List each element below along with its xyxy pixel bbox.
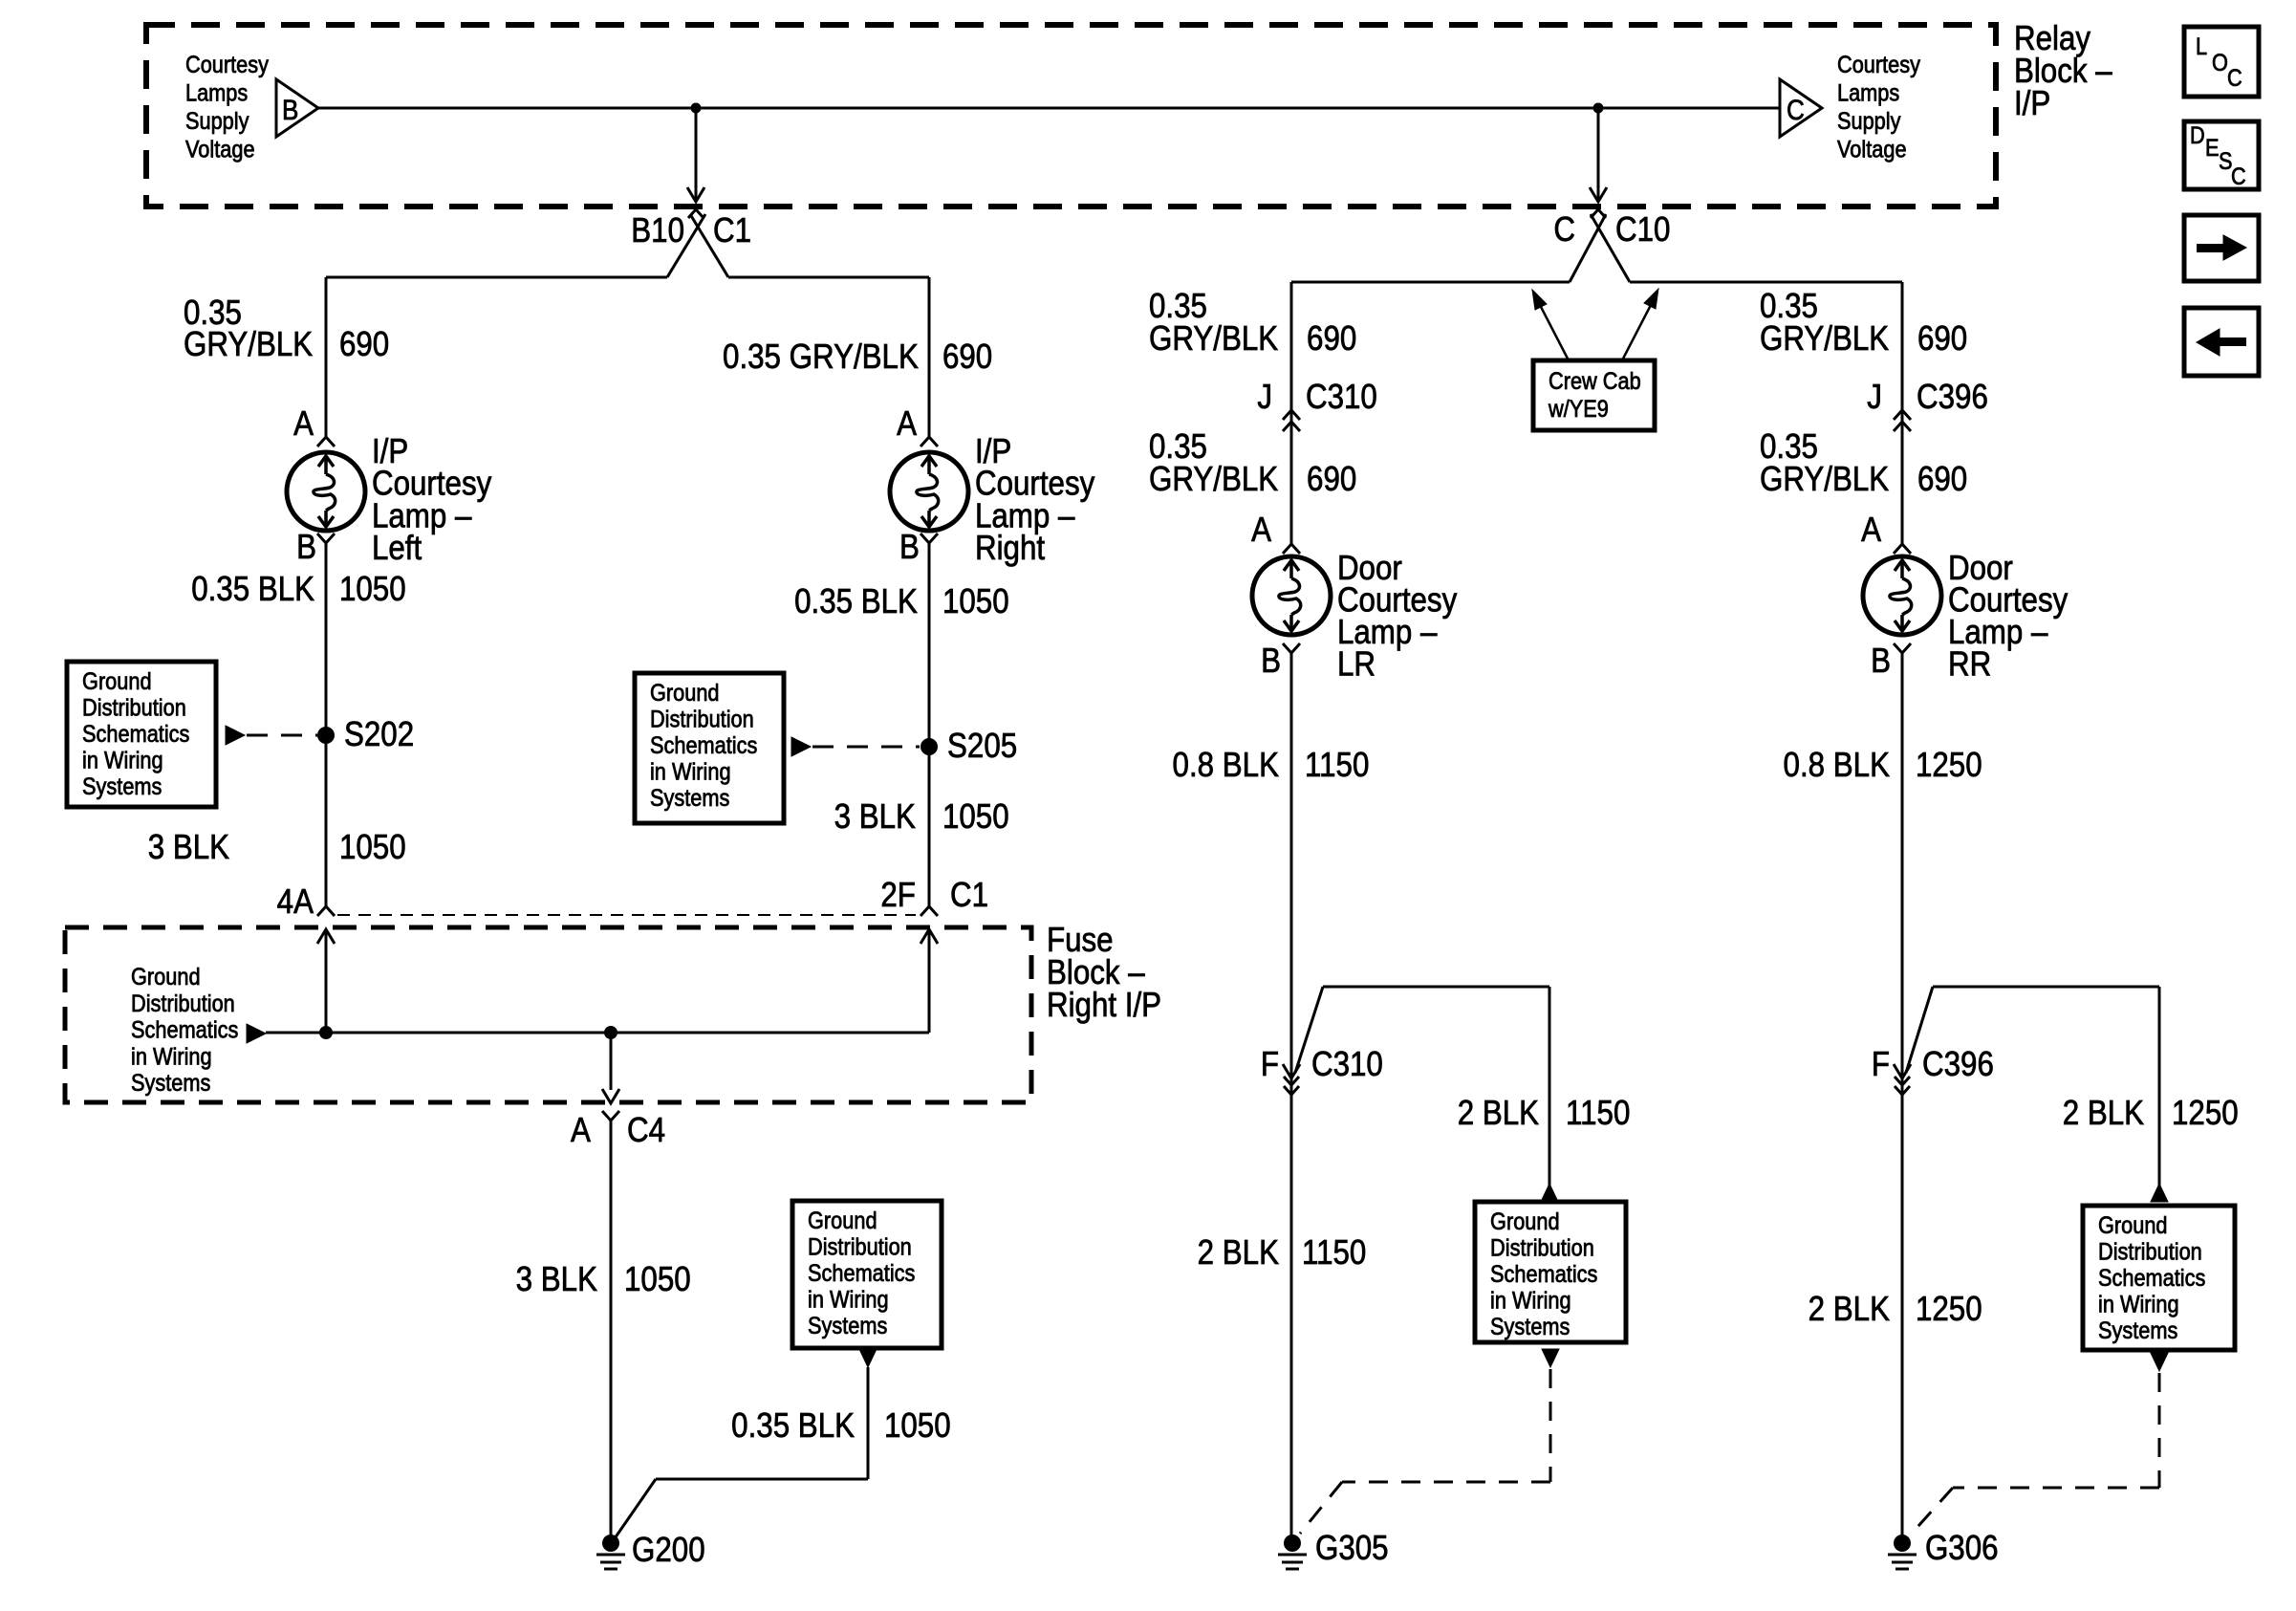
svg-text:690: 690 xyxy=(1307,460,1356,499)
svg-text:Systems: Systems xyxy=(2098,1317,2177,1344)
node B: Courtesy Lamps Supply Voltage (left) xyxy=(276,79,318,137)
svg-text:G305: G305 xyxy=(1315,1529,1389,1568)
svg-text:C: C xyxy=(2227,65,2242,92)
connector J / C310 xyxy=(1257,378,1272,417)
svg-text:B: B xyxy=(899,528,920,567)
junction on feed wire (right drop) xyxy=(1593,103,1604,114)
crew cab arrow right xyxy=(1622,305,1651,360)
svg-text:Courtesy: Courtesy xyxy=(185,52,269,78)
splice S202 xyxy=(317,727,335,744)
lamp E4: Door Courtesy Lamp - RR xyxy=(1863,556,1941,635)
fuse block title xyxy=(1047,921,1114,960)
svg-text:in Wiring: in Wiring xyxy=(2098,1291,2179,1317)
arrowhead left drop xyxy=(687,187,704,202)
ground distribution reference box (G200) xyxy=(792,1201,942,1348)
svg-text:C396: C396 xyxy=(1922,1045,1994,1084)
svg-text:I/P: I/P xyxy=(2014,84,2050,123)
svg-text:1150: 1150 xyxy=(1305,746,1369,785)
pin B of door courtesy lamp LR xyxy=(1283,643,1300,653)
reference arrow to S202 xyxy=(226,726,245,745)
ground distribution reference box (S205) xyxy=(635,673,784,823)
svg-text:3 BLK: 3 BLK xyxy=(516,1260,598,1299)
label C xyxy=(1553,210,1575,250)
circuit number 1050 xyxy=(339,570,406,609)
svg-text:Distribution: Distribution xyxy=(131,990,235,1016)
pin label B in triangle xyxy=(282,94,298,125)
wire: branch to door courtesy lamp RR xyxy=(1630,281,1902,284)
pin B of I/P courtesy lamp right xyxy=(921,533,938,543)
svg-text:2 BLK: 2 BLK xyxy=(2063,1094,2145,1133)
label C10 xyxy=(1615,210,1670,250)
connector B10/C1 xyxy=(688,209,704,218)
svg-text:J: J xyxy=(1257,378,1272,417)
svg-text:S202: S202 xyxy=(344,715,414,754)
svg-text:Ground: Ground xyxy=(808,1208,877,1234)
svg-text:690: 690 xyxy=(1307,319,1356,359)
value label 0.35 GRY/BLK 690 (LR lower) xyxy=(1149,427,1207,467)
value label 0.35 GRY/BLK 690 (RR upper) xyxy=(1760,287,1818,326)
wire: lamp left pin B to splice S202 (0.35 BLK 1050) xyxy=(325,543,328,906)
svg-text:Ground: Ground xyxy=(2098,1212,2168,1239)
splice S205 xyxy=(921,738,938,755)
svg-text:in Wiring: in Wiring xyxy=(1490,1287,1571,1314)
ground distribution reference box (S202) xyxy=(67,662,216,807)
label S202 xyxy=(344,715,414,754)
svg-text:GRY/BLK: GRY/BLK xyxy=(1760,319,1890,359)
connector pin 2F / C1 at fuse block xyxy=(880,876,916,915)
svg-text:A: A xyxy=(1861,511,1881,550)
ground distribution reference text in fuse block xyxy=(131,964,201,991)
wire: C4 to ground G200 (3 BLK 1050) xyxy=(610,1121,613,1543)
svg-text:0.35 BLK: 0.35 BLK xyxy=(191,570,314,609)
svg-text:Systems: Systems xyxy=(650,785,729,812)
svg-text:Ground: Ground xyxy=(1490,1208,1560,1235)
svg-text:A: A xyxy=(571,1111,591,1150)
wire: left drop from feed to B10/C1 xyxy=(695,108,698,202)
svg-text:E: E xyxy=(2205,135,2220,162)
wire: fuse block internal ground bus xyxy=(266,1032,929,1034)
lamp E2: I/P Courtesy Lamp - Right xyxy=(890,452,968,531)
svg-text:Ground: Ground xyxy=(82,668,152,695)
svg-text:Distribution: Distribution xyxy=(1490,1234,1594,1261)
arrowhead right drop xyxy=(1590,187,1607,202)
svg-text:690: 690 xyxy=(1917,319,1967,359)
wire: courtesy lamps supply voltage feed xyxy=(318,107,1780,110)
pin A of door courtesy lamp LR xyxy=(1283,544,1300,554)
svg-text:in Wiring: in Wiring xyxy=(82,747,163,773)
value label 0.35 GRY/BLK 690 (left branch) xyxy=(184,294,242,333)
svg-text:4A: 4A xyxy=(277,882,314,922)
svg-text:in Wiring: in Wiring xyxy=(808,1286,889,1313)
label G306 xyxy=(1925,1529,1999,1568)
label G305 xyxy=(1315,1529,1389,1568)
svg-text:Distribution: Distribution xyxy=(82,694,186,721)
pin B of door courtesy lamp RR xyxy=(1894,643,1911,653)
svg-text:Courtesy: Courtesy xyxy=(1837,52,1920,78)
circuit number 1050 xyxy=(339,828,406,867)
svg-text:Lamps: Lamps xyxy=(1837,79,1899,106)
svg-text:LR: LR xyxy=(1337,644,1375,684)
svg-text:Crew Cab: Crew Cab xyxy=(1549,368,1641,395)
svg-text:C4: C4 xyxy=(627,1111,665,1150)
svg-text:GRY/BLK: GRY/BLK xyxy=(1760,460,1890,499)
svg-text:3 BLK: 3 BLK xyxy=(834,797,917,837)
wire: branch to I/P courtesy lamp left (circuit 690) xyxy=(326,276,667,279)
svg-text:C310: C310 xyxy=(1311,1045,1383,1084)
ground distribution reference box (G306) xyxy=(2083,1206,2235,1350)
value label 3 BLK xyxy=(148,828,230,867)
arrowhead at fuse block exit xyxy=(602,1089,619,1103)
ground G200 xyxy=(602,1535,619,1552)
svg-text:C10: C10 xyxy=(1615,210,1670,250)
svg-text:GRY/BLK: GRY/BLK xyxy=(1149,319,1279,359)
prev-page arrow box xyxy=(2184,308,2259,376)
svg-text:1050: 1050 xyxy=(942,582,1009,621)
svg-text:Schematics: Schematics xyxy=(650,732,757,759)
svg-text:0.8 BLK: 0.8 BLK xyxy=(1173,746,1280,785)
reference arrow above box (RR) xyxy=(2151,1184,2168,1202)
wire: right drop from feed to C/C10 xyxy=(1597,108,1600,202)
dashed reference line to S202 xyxy=(247,734,317,737)
svg-text:1150: 1150 xyxy=(1302,1233,1366,1273)
svg-text:1250: 1250 xyxy=(2172,1094,2239,1133)
ground G306 xyxy=(1894,1535,1911,1552)
wire: lamp right pin B to splice S205 (0.35 BLK 1050) xyxy=(928,543,931,906)
svg-text:C: C xyxy=(1787,94,1805,125)
svg-text:1050: 1050 xyxy=(339,570,406,609)
connector F / C310 xyxy=(1283,1064,1300,1078)
wire: drop from bus to connector C4 xyxy=(610,1033,613,1090)
value label 0.35 GRY/BLK 690 (LR upper) xyxy=(1149,287,1207,326)
svg-text:1050: 1050 xyxy=(624,1260,691,1299)
svg-text:B: B xyxy=(296,528,316,567)
wire: branch from LR wire to reference box (2 BLK 1150) xyxy=(1295,987,1323,1073)
svg-text:J: J xyxy=(1867,378,1882,417)
svg-text:B: B xyxy=(1871,642,1891,681)
crew cab option box xyxy=(1533,360,1655,430)
svg-text:Voltage: Voltage xyxy=(185,136,255,163)
svg-text:Distribution: Distribution xyxy=(808,1233,912,1260)
ground distribution reference box (G305) xyxy=(1475,1202,1626,1342)
lamp E3: Door Courtesy Lamp - LR xyxy=(1252,556,1331,635)
svg-text:Systems: Systems xyxy=(82,773,162,800)
svg-text:0.35 GRY/BLK: 0.35 GRY/BLK xyxy=(723,337,919,377)
relay block title xyxy=(2014,19,2090,58)
junction drop to C4 with bus xyxy=(604,1026,617,1039)
svg-text:GRY/BLK: GRY/BLK xyxy=(184,325,314,364)
svg-text:Supply: Supply xyxy=(185,108,249,135)
svg-text:C310: C310 xyxy=(1306,378,1377,417)
connector pin A / C4 xyxy=(602,1111,619,1121)
connector C/C10 xyxy=(1591,209,1606,218)
svg-text:Schematics: Schematics xyxy=(1490,1261,1597,1288)
svg-text:Systems: Systems xyxy=(131,1070,210,1097)
lamp E1: I/P Courtesy Lamp - Left xyxy=(287,452,365,531)
junction on feed wire (left drop) xyxy=(691,103,702,114)
fuse block dashed box: Fuse Block - Right I/P xyxy=(65,927,1031,1102)
svg-text:F: F xyxy=(1872,1045,1890,1084)
relay block dashed box: Relay Block - I/P xyxy=(146,25,1996,207)
svg-text:Schematics: Schematics xyxy=(808,1260,915,1287)
svg-text:Right: Right xyxy=(975,529,1046,568)
svg-text:2 BLK: 2 BLK xyxy=(1458,1094,1540,1133)
svg-text:L: L xyxy=(2196,33,2207,60)
svg-text:C: C xyxy=(2231,163,2246,190)
pin A of door courtesy lamp RR xyxy=(1894,544,1911,554)
svg-text:690: 690 xyxy=(942,337,992,377)
svg-text:in Wiring: in Wiring xyxy=(131,1043,212,1070)
svg-text:Distribution: Distribution xyxy=(650,706,754,732)
value label 0.35 GRY/BLK 690 (RR lower) xyxy=(1760,427,1818,467)
svg-text:A: A xyxy=(1251,511,1271,550)
svg-text:0.8 BLK: 0.8 BLK xyxy=(1784,746,1891,785)
svg-text:A: A xyxy=(293,404,314,444)
svg-text:Distribution: Distribution xyxy=(2098,1238,2202,1265)
svg-text:Voltage: Voltage xyxy=(1837,136,1907,163)
svg-text:0.35 BLK: 0.35 BLK xyxy=(731,1406,855,1446)
wire: branch to I/P courtesy lamp right (circuit 690) xyxy=(728,276,929,279)
svg-text:Lamps: Lamps xyxy=(185,79,248,106)
label B10 xyxy=(631,211,684,250)
svg-text:2F: 2F xyxy=(880,876,916,915)
svg-text:Left: Left xyxy=(372,529,422,568)
reference arrow above box (LR) xyxy=(1541,1184,1558,1202)
svg-text:C1: C1 xyxy=(713,211,751,250)
svg-text:S205: S205 xyxy=(947,727,1017,766)
svg-text:Systems: Systems xyxy=(1490,1314,1570,1340)
svg-text:GRY/BLK: GRY/BLK xyxy=(1149,460,1279,499)
value label 0.35 GRY/BLK 690 (mid branch) xyxy=(723,337,919,377)
label G200 xyxy=(632,1531,705,1570)
crew cab arrow left xyxy=(1539,303,1569,360)
DESC nav box xyxy=(2184,121,2259,189)
node C: Courtesy Lamps Supply Voltage (right) xyxy=(1780,79,1822,137)
junction 4A wire with bus xyxy=(319,1026,333,1039)
dashed reference path to G306 xyxy=(2158,1373,2161,1488)
svg-text:1250: 1250 xyxy=(1916,746,1982,785)
svg-text:1050: 1050 xyxy=(942,797,1009,837)
svg-text:3 BLK: 3 BLK xyxy=(148,828,230,867)
LOC nav box xyxy=(2184,27,2259,97)
circuit number 1150 xyxy=(1302,1233,1366,1273)
svg-text:690: 690 xyxy=(339,325,389,364)
connector F / C396 xyxy=(1894,1064,1911,1078)
svg-text:B10: B10 xyxy=(631,211,684,250)
svg-text:1150: 1150 xyxy=(1566,1094,1630,1133)
svg-text:Supply: Supply xyxy=(1837,108,1901,135)
svg-text:in Wiring: in Wiring xyxy=(650,758,731,785)
next-page arrow box xyxy=(2184,215,2259,281)
svg-text:2 BLK: 2 BLK xyxy=(1809,1290,1891,1329)
pin B of I/P courtesy lamp left xyxy=(317,533,335,543)
connector pin 4A at fuse block xyxy=(277,882,314,922)
pin A of I/P courtesy lamp left xyxy=(317,437,335,446)
connector C1 body (thin dashed line) xyxy=(337,914,916,916)
label S205 xyxy=(947,727,1017,766)
svg-text:G200: G200 xyxy=(632,1531,705,1570)
ground G305 xyxy=(1284,1535,1301,1552)
wire: RR lamp to G306 (0.8 BLK 1250) xyxy=(1901,653,1904,1543)
relay left label line xyxy=(185,52,269,78)
dashed reference line to S205 xyxy=(812,746,920,749)
wire: branch to door courtesy lamp LR xyxy=(1291,281,1570,284)
svg-text:C396: C396 xyxy=(1917,378,1988,417)
svg-text:Ground: Ground xyxy=(131,964,201,991)
reference arrow below box (G305) xyxy=(1542,1349,1559,1367)
connector J / C396 xyxy=(1867,378,1882,417)
reference arrow below box (G200) xyxy=(859,1349,877,1367)
wire: 2F into fuse block xyxy=(921,929,938,944)
wire: reference branch 0.35 BLK 1050 to G200 xyxy=(867,1367,870,1479)
svg-text:1250: 1250 xyxy=(1916,1290,1982,1329)
svg-text:F: F xyxy=(1261,1045,1279,1084)
pin A of I/P courtesy lamp right xyxy=(921,437,938,446)
svg-text:1050: 1050 xyxy=(339,828,406,867)
wire: branch from RR wire to reference box (2 BLK 1250) xyxy=(1906,987,1933,1073)
svg-text:D: D xyxy=(2190,122,2205,149)
svg-text:Right I/P: Right I/P xyxy=(1047,986,1161,1025)
reference arrow in fuse block xyxy=(247,1024,266,1043)
reference arrow to S205 xyxy=(791,737,811,756)
svg-text:C: C xyxy=(1553,210,1575,250)
svg-text:Schematics: Schematics xyxy=(82,721,189,748)
svg-text:0.35 BLK: 0.35 BLK xyxy=(794,582,918,621)
reference arrow below box (G306) xyxy=(2151,1353,2168,1371)
value label 2 BLK xyxy=(1198,1233,1280,1273)
wire: 4A into fuse block xyxy=(317,929,335,944)
svg-text:B: B xyxy=(1261,642,1281,681)
svg-text:Schematics: Schematics xyxy=(131,1016,238,1043)
svg-text:1050: 1050 xyxy=(884,1406,951,1446)
svg-text:B: B xyxy=(282,94,298,125)
svg-text:A: A xyxy=(897,404,917,444)
svg-text:RR: RR xyxy=(1948,644,1991,684)
svg-text:w/YE9: w/YE9 xyxy=(1548,396,1609,423)
wire: LR lamp to G305 (0.8 BLK 1150) xyxy=(1290,653,1293,1543)
svg-text:690: 690 xyxy=(1917,460,1967,499)
value label 0.35 BLK xyxy=(191,570,314,609)
svg-text:2 BLK: 2 BLK xyxy=(1198,1233,1280,1273)
dashed reference path to G305 xyxy=(1549,1369,1552,1482)
svg-text:Ground: Ground xyxy=(650,680,720,707)
label C1 xyxy=(713,211,751,250)
svg-text:Systems: Systems xyxy=(808,1313,887,1339)
svg-text:O: O xyxy=(2212,50,2228,76)
svg-text:Schematics: Schematics xyxy=(2098,1265,2205,1292)
svg-text:C1: C1 xyxy=(950,876,988,915)
pin label C in triangle xyxy=(1787,94,1805,125)
svg-text:G306: G306 xyxy=(1925,1529,1999,1568)
